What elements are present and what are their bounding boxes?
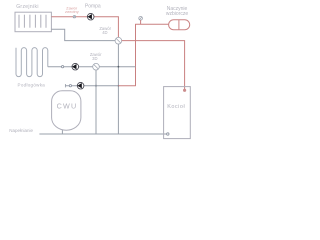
svg-text:Napełnianie: Napełnianie	[9, 128, 33, 133]
radiator (grzejnik) body	[15, 12, 51, 32]
wire: radiator return (grey) to 4D valve left	[51, 29, 115, 40]
expansion vessel (naczynie wzbiorcze)	[169, 20, 190, 30]
boiler (kociol)	[164, 87, 191, 139]
wire: CWU loading line (red part from riser)	[118, 85, 135, 87]
wire: radiator supply (red) to 4D valve top	[51, 17, 118, 38]
node boiler supply connection (red dot)	[183, 89, 186, 92]
wire: CWU loading line (grey part)	[65, 85, 118, 87]
svg-text:3D: 3D	[92, 56, 97, 61]
check valve on supply line	[73, 16, 75, 18]
CWU tank	[52, 91, 81, 130]
valve 4D (mixing valve)	[115, 37, 122, 44]
wire: 4D valve down to bottom line (grey)	[117, 44, 119, 134]
pump P2 (floor loop)	[72, 63, 79, 70]
wire: branch to expansion vessel (red)	[136, 23, 169, 25]
svg-text:Podłogówka: Podłogówka	[18, 82, 46, 87]
svg-text:CWU: CWU	[57, 101, 78, 110]
wire: boiler hot riser (red vertical)	[135, 24, 137, 86]
valve 3D	[93, 63, 100, 70]
pump P1 (Pompa)	[87, 13, 94, 20]
wire: 3D valve down through CWU line to bottom line (grey)	[95, 70, 97, 134]
svg-text:Pompa: Pompa	[85, 4, 101, 10]
node junction floor-return / 4D drop	[118, 66, 120, 68]
svg-text:Kocioł: Kocioł	[167, 104, 185, 110]
svg-text:zwrotny: zwrotny	[65, 9, 79, 14]
wire: floor loop return to 3D valve and boiler riser (grey)	[48, 66, 136, 68]
svg-text:4D: 4D	[102, 30, 107, 35]
check valve on floor loop	[62, 66, 64, 68]
wire: tank bottom stub	[61, 130, 63, 134]
wire: 4D valve right to boiler top (red)	[122, 41, 185, 90]
air vent valve	[139, 17, 143, 25]
svg-text:wzbiorcze: wzbiorcze	[166, 11, 188, 17]
svg-text:Grzejniki: Grzejniki	[16, 4, 39, 10]
node boiler return connection (open circle)	[167, 133, 169, 135]
floor heating coil (podlogowka)	[16, 48, 48, 77]
wire: bottom fill/return line (grey)	[39, 133, 166, 135]
check valve on CWU line	[69, 85, 71, 87]
pipe end cap at CWU	[64, 84, 66, 87]
pump P3 (CWU loading)	[77, 82, 84, 89]
node junction CWU line / 4D drop	[118, 85, 120, 87]
radiator fins	[19, 15, 46, 28]
node junction CWU line / 3D drop	[95, 85, 97, 87]
